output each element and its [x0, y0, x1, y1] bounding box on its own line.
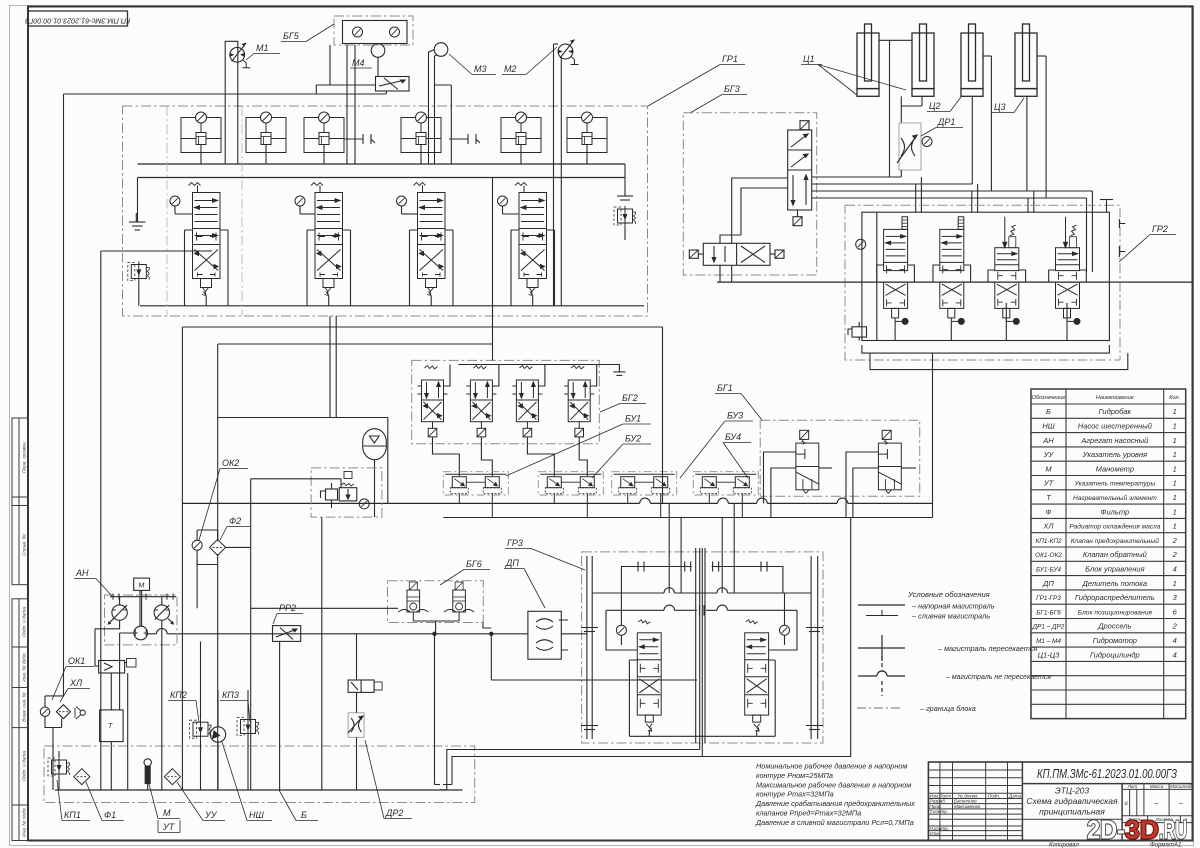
- check valve of GR1 section 2: [295, 196, 305, 206]
- svg-text:БУ1: БУ1: [625, 414, 641, 424]
- svg-text:1: 1: [1173, 422, 1177, 431]
- pump2 drop: [161, 620, 163, 790]
- check valve in BG5 left: [353, 27, 363, 37]
- svg-text:1: 1: [1173, 407, 1177, 416]
- svg-text:Кол.: Кол.: [1169, 395, 1180, 401]
- accumulator box: [218, 344, 388, 541]
- svg-text:Радиатор охлаждения масла: Радиатор охлаждения масла: [1069, 523, 1161, 531]
- svg-text:Ц3: Ц3: [994, 102, 1006, 112]
- BG1 wires: [764, 452, 917, 518]
- svg-text:М: М: [139, 583, 145, 590]
- wire H12: [251, 607, 398, 609]
- GR2 section 2: [940, 217, 965, 325]
- relief in box: [321, 483, 338, 508]
- svg-text:БУ1-БУ4: БУ1-БУ4: [1036, 567, 1061, 574]
- GR3 housing verticals: [587, 556, 818, 739]
- wire return loop x100: [101, 251, 212, 790]
- svg-text:КП3: КП3: [222, 690, 239, 700]
- GR2 section 4: [1056, 217, 1081, 325]
- svg-text:Гидроцилиндр: Гидроцилиндр: [1090, 650, 1140, 659]
- svg-text:Блок управления: Блок управления: [1085, 565, 1145, 574]
- pressure control box: [311, 468, 382, 517]
- svg-text:ГР2: ГР2: [1152, 224, 1168, 234]
- GR3 check right: [780, 625, 790, 635]
- svg-text:КП.ПМ.ЗМс-61.2023.01.00.00ГЗ: КП.ПМ.ЗМс-61.2023.01.00.00ГЗ: [1037, 766, 1177, 781]
- svg-text:Фильтр: Фильтр: [1101, 507, 1130, 516]
- left stamp column boxes: [12, 418, 28, 841]
- check valve of GR1 section 3: [397, 196, 407, 206]
- cylinder C2 pipes: [972, 56, 991, 191]
- BG2 top bus: [444, 365, 626, 387]
- control block BU1: [443, 472, 508, 518]
- svg-text:2: 2: [1172, 536, 1178, 545]
- legend (условные обозначения): [907, 590, 1051, 713]
- svg-text:Т.контр.: Т.контр.: [930, 809, 949, 814]
- GR3 check left: [616, 625, 626, 635]
- cylinder C1 link wires: [879, 40, 922, 177]
- svg-text:Насос шестеренный: Насос шестеренный: [1078, 422, 1153, 431]
- GR1 valve section 4: [515, 183, 547, 296]
- throttle DR2: [348, 713, 364, 738]
- svg-text:Басенчико: Басенчико: [954, 799, 977, 804]
- AN shaft: [110, 590, 176, 626]
- svg-text:ДР1: ДР1: [937, 117, 955, 127]
- check in box: [359, 499, 369, 509]
- GR2 section 3: [995, 217, 1020, 325]
- block BG1 border: [760, 420, 920, 496]
- parts list table: [1031, 389, 1186, 719]
- block GR1 border: [123, 106, 648, 316]
- BG1 valve A: [796, 430, 819, 493]
- svg-text:М: М: [163, 808, 171, 818]
- flow regulator RR1: [376, 77, 410, 92]
- svg-text:Указатель уровня: Указатель уровня: [1082, 450, 1147, 459]
- block GR2 border: [845, 205, 1120, 360]
- title block: [928, 762, 1192, 841]
- svg-text:ДП: ДП: [1042, 579, 1054, 588]
- svg-text:1: 1: [1173, 464, 1177, 473]
- XL loop box: [40, 696, 63, 790]
- svg-text:Изм.Лист: Изм.Лист: [930, 793, 952, 798]
- technical notes: [755, 762, 915, 827]
- block GR3 border: [582, 552, 823, 743]
- GR1 section 2 wires: [307, 230, 351, 306]
- svg-text:БГ1-БГ6: БГ1-БГ6: [1036, 609, 1061, 616]
- svg-text:Инв. № дубл.: Инв. № дубл.: [22, 652, 28, 682]
- svg-text:М3: М3: [474, 64, 487, 74]
- svg-text:ДР1 – ДР2: ДР1 – ДР2: [1032, 624, 1065, 631]
- thermometer M/UT: [144, 759, 151, 790]
- svg-text:Номинальное рабочее давление в: Номинальное рабочее давление в напорном: [756, 762, 907, 771]
- BG6 valve 2: [444, 582, 474, 618]
- flow regulator RR2: [273, 626, 301, 642]
- check valve OK2: [192, 540, 202, 550]
- tank collector: [55, 789, 463, 791]
- collector line H9: [443, 517, 932, 519]
- svg-text:Нагревательный элемент: Нагревательный элемент: [1073, 494, 1157, 502]
- svg-text:КП.ПМ.ЗМс-61.2023.01.00.00ГЗ: КП.ПМ.ЗМс-61.2023.01.00.00ГЗ: [25, 17, 131, 26]
- hydrocylinder body 4: [1015, 24, 1037, 96]
- feed pair from GR1: [330, 316, 336, 418]
- svg-text:Разраб.: Разраб.: [930, 799, 947, 804]
- svg-text:Копировал: Копировал: [1049, 842, 1079, 848]
- BG3 solenoid left: [689, 250, 703, 258]
- hydromotor M2: [558, 40, 578, 65]
- svg-text:Ф2: Ф2: [229, 516, 241, 526]
- svg-text:4: 4: [1173, 650, 1177, 659]
- GR1 section 1 wires: [185, 230, 229, 306]
- svg-text:контуре Рном=25МПа: контуре Рном=25МПа: [756, 771, 833, 780]
- svg-text:Давление в сливной магистрали: Давление в сливной магистрали Рсл=0,7МПа: [755, 818, 914, 827]
- svg-text:Делитель потока: Делитель потока: [1082, 579, 1147, 588]
- GR2 check valve left: [856, 239, 866, 249]
- valve above DR2: [348, 680, 382, 692]
- GR1 supply rails: [138, 163, 626, 165]
- GR1 section 3 wires: [410, 230, 454, 306]
- svg-text:Ф: Ф: [1046, 507, 1052, 516]
- svg-text:1: 1: [1173, 479, 1177, 488]
- OK1 check valve: [99, 659, 136, 674]
- GR3 valve left: [637, 620, 661, 732]
- svg-text:2: 2: [1172, 550, 1178, 559]
- svg-text:–: –: [1154, 800, 1159, 807]
- watermark 2D-3D.RU: [1087, 815, 1187, 845]
- svg-text:Подп.: Подп.: [988, 793, 1000, 798]
- svg-text:клапанов Рпред=Рmax=32МПа: клапанов Рпред=Рmax=32МПа: [756, 809, 861, 818]
- svg-text:Дроссель: Дроссель: [1097, 622, 1131, 631]
- svg-text:4: 4: [1173, 565, 1177, 574]
- wire left trunk: [63, 94, 65, 696]
- KP2 valve: [190, 719, 212, 739]
- BG5 pipes down: [316, 45, 386, 164]
- block BG6 border: [388, 581, 484, 623]
- tank port symbol left: [130, 178, 146, 231]
- wire H5: [218, 178, 493, 361]
- svg-text:Максимальное рабочее давление: Максимальное рабочее давление в напорном: [756, 780, 911, 789]
- svg-text:1: 1: [1173, 579, 1177, 588]
- svg-text:УУ: УУ: [204, 810, 218, 820]
- KP1: [48, 757, 70, 777]
- GR2 return drop: [702, 353, 932, 756]
- hydromotor M1: [230, 43, 250, 68]
- svg-text:1: 1: [1173, 507, 1177, 516]
- svg-text:Дата: Дата: [1008, 793, 1022, 798]
- level gauge UU: [164, 769, 180, 785]
- radiator XL: [56, 705, 85, 719]
- GR1 top section 4: [401, 112, 441, 153]
- collector line H8: [182, 498, 932, 503]
- BU drop joins: [662, 327, 664, 503]
- hydromotor M3: [434, 43, 448, 57]
- BG6 valve 1: [398, 582, 428, 618]
- hydrocylinder body 1: [857, 24, 879, 96]
- svg-text:АН: АН: [75, 568, 89, 578]
- svg-text:.RU: .RU: [1159, 815, 1187, 845]
- GR1 section 4 wires: [511, 230, 555, 306]
- svg-text:Наименование: Наименование: [1096, 395, 1134, 401]
- svg-text:БУ3: БУ3: [727, 411, 743, 421]
- svg-text:Б: Б: [301, 810, 307, 820]
- throttle DR1: [899, 123, 921, 170]
- wire H4: [182, 327, 662, 790]
- BG3 internal wires: [720, 178, 788, 282]
- control block BU2: [538, 472, 603, 518]
- GR3 valve loops: [606, 593, 797, 736]
- svg-text:Т: Т: [108, 723, 113, 730]
- svg-text:Утв.: Утв.: [930, 831, 940, 836]
- svg-text:ГР3: ГР3: [507, 538, 523, 548]
- svg-text:4: 4: [1173, 636, 1177, 645]
- svg-text:контуре Рmax=32МПа: контуре Рmax=32МПа: [756, 790, 834, 799]
- wire H top-left: [64, 93, 387, 95]
- GR3 center verticals: [696, 548, 705, 757]
- svg-text:Лит.: Лит.: [1127, 784, 1139, 789]
- check valve in BG5 right: [390, 27, 400, 37]
- svg-text:Подп. и дата: Подп. и дата: [22, 751, 28, 781]
- pipe bundle: [812, 177, 1093, 272]
- junction mark 2: [449, 134, 480, 144]
- block BG3 border: [683, 113, 816, 275]
- svg-text:– граница блока: – граница блока: [919, 704, 976, 713]
- KP3 valve: [237, 717, 259, 737]
- right relief valve of GR1: [617, 164, 633, 200]
- BG3 vertical valve: [788, 130, 812, 210]
- svg-text:УТ: УТ: [1043, 479, 1055, 488]
- BG2 drops to BU: [433, 437, 588, 476]
- svg-text:Ц1-Ц3: Ц1-Ц3: [1038, 650, 1061, 659]
- svg-text:Гидрораспределитель: Гидрораспределитель: [1075, 593, 1155, 602]
- check valve of GR1 section 1: [170, 196, 180, 206]
- GR1 top section 1: [181, 112, 221, 153]
- svg-text:№ докум.: № докум.: [958, 793, 978, 798]
- GR1 inner bottom line: [140, 305, 644, 307]
- svg-text:Взам. инв. №: Взам. инв. №: [22, 692, 28, 722]
- motor M box: [134, 578, 150, 590]
- svg-text:Пров.: Пров.: [930, 804, 942, 809]
- fan motor: [134, 626, 148, 640]
- DP/RR2 drains: [435, 634, 441, 785]
- wire H7: [251, 479, 341, 488]
- wire tank drop: [129, 213, 144, 230]
- GR2 right port marks: [1100, 200, 1125, 258]
- svg-text:2: 2: [1172, 622, 1178, 631]
- svg-text:Масса: Масса: [1150, 784, 1164, 789]
- svg-text:Максименко: Максименко: [954, 804, 981, 809]
- GR2 bottom-left relief: [848, 322, 867, 341]
- svg-text:КП1-КП2: КП1-КП2: [1035, 538, 1061, 545]
- svg-text:Условные обозначения: Условные обозначения: [907, 590, 990, 599]
- GR3 drains to tank: [440, 750, 702, 790]
- svg-text:БГ3: БГ3: [724, 84, 740, 94]
- BG3 solenoid right: [770, 250, 784, 258]
- svg-text:Манометр: Манометр: [1096, 464, 1134, 473]
- svg-text:1: 1: [1173, 450, 1177, 459]
- svg-text:Инв. № подл.: Инв. № подл.: [22, 807, 28, 837]
- GR2 section 1: [884, 217, 909, 325]
- block AN border: [105, 595, 178, 645]
- tank boundary: [44, 746, 475, 803]
- check valve of GR1 section 4: [498, 196, 508, 206]
- svg-text:– магистраль не пересекается: – магистраль не пересекается: [945, 674, 1051, 681]
- svg-text:УУ: УУ: [1043, 450, 1055, 459]
- GR1 top section 6: [567, 112, 607, 153]
- svg-text:ДП: ДП: [505, 558, 519, 568]
- svg-text:ЭТЦ-203: ЭТЦ-203: [1055, 786, 1090, 796]
- svg-text:ХЛ: ХЛ: [1042, 522, 1054, 531]
- svg-text:РР2: РР2: [279, 603, 296, 613]
- OK2/F2 wires: [197, 530, 251, 790]
- svg-text:Указатель температуры: Указатель температуры: [1073, 481, 1155, 488]
- svg-text:Подп. и дата: Подп. и дата: [22, 607, 28, 637]
- wire OK2 drop: [250, 479, 252, 790]
- GR1 valve section 3: [414, 183, 446, 296]
- GR3 valve right: [745, 620, 769, 732]
- DP output drain: [491, 620, 697, 680]
- svg-text:–: –: [1178, 800, 1183, 807]
- top-left corner stamp (rotated doc number): [28, 11, 128, 26]
- svg-text:БГ1: БГ1: [717, 383, 733, 393]
- svg-text:Ц2: Ц2: [929, 101, 941, 111]
- svg-text:Клапан обратный: Клапан обратный: [1083, 550, 1148, 559]
- block BG5: [334, 16, 413, 45]
- check valve at DR1: [922, 137, 932, 147]
- control block BU3: [612, 472, 677, 518]
- BG3 solenoid top: [800, 121, 809, 130]
- block BG2 border: [412, 360, 600, 443]
- svg-text:КП1: КП1: [64, 810, 81, 820]
- BG1 valve B: [878, 430, 901, 493]
- BG2 valve 4: [564, 366, 594, 437]
- svg-text:Ц1: Ц1: [803, 54, 815, 64]
- svg-text:Клапан предохранительный: Клапан предохранительный: [1071, 537, 1160, 545]
- GR3 top feeds: [669, 503, 734, 593]
- svg-text:1: 1: [1173, 522, 1177, 531]
- svg-text:Масштаб: Масштаб: [1170, 784, 1192, 789]
- heater T: [100, 710, 124, 742]
- svg-text:М: М: [1045, 464, 1052, 473]
- gear pump NSh: [210, 690, 226, 790]
- svg-text:ОК2: ОК2: [222, 458, 239, 468]
- svg-text:Гидромотор: Гидромотор: [1093, 636, 1137, 645]
- svg-text:АН: АН: [1042, 436, 1054, 445]
- svg-text:Ф1: Ф1: [104, 810, 116, 820]
- svg-text:УТ: УТ: [162, 822, 176, 832]
- svg-text:М2: М2: [504, 64, 517, 74]
- svg-text:ОК1: ОК1: [68, 656, 85, 666]
- svg-text:2D-: 2D-: [1087, 815, 1125, 845]
- svg-text:БУ4: БУ4: [725, 432, 741, 442]
- hydrocylinder body 2: [912, 24, 934, 96]
- svg-text:Перв. примен.: Перв. примен.: [22, 441, 28, 473]
- svg-text:М4: М4: [352, 58, 365, 68]
- filter F1: [74, 769, 90, 785]
- BG6 bottom joins: [413, 618, 491, 634]
- svg-text:БГ5: БГ5: [283, 31, 300, 41]
- BG3 horizontal valve: [703, 243, 770, 265]
- hydrocylinder body 3: [961, 24, 983, 96]
- svg-text:М1: М1: [256, 43, 269, 53]
- svg-text:ОК1-ОК2: ОК1-ОК2: [1035, 552, 1062, 559]
- wire H13: [148, 633, 587, 635]
- svg-text:1: 1: [1173, 493, 1177, 502]
- GR3 top wire w junction marks: [621, 562, 783, 594]
- GR2 section side channels: [877, 265, 1087, 341]
- svg-text:– магистраль пересекается: – магистраль пересекается: [937, 644, 1037, 653]
- GR1 top section 5: [501, 112, 541, 153]
- svg-text:Справ. №: Справ. №: [22, 534, 28, 556]
- BG3 solenoid bottom: [793, 210, 802, 226]
- svg-text:ДР2: ДР2: [385, 808, 403, 818]
- svg-text:ГР1-ГР3: ГР1-ГР3: [1036, 595, 1061, 602]
- GR3 port marks: [581, 628, 823, 730]
- svg-text:Обозначение: Обозначение: [1032, 395, 1066, 401]
- svg-text:Гидробак: Гидробак: [1099, 407, 1132, 416]
- control block BU4: [693, 472, 758, 518]
- valve KP inside GR1: [128, 262, 150, 282]
- GR1 inner section dividers: [167, 106, 242, 316]
- svg-text:НШ: НШ: [1042, 422, 1054, 431]
- GR1 top section 2: [246, 112, 286, 153]
- BG2 valve 2: [466, 366, 496, 437]
- svg-text:– сливная магистраль: – сливная магистраль: [911, 612, 990, 621]
- accumulator: [363, 429, 387, 517]
- svg-text:ХЛ: ХЛ: [69, 678, 83, 688]
- pump 2: [154, 597, 174, 625]
- junction mark 1: [344, 134, 375, 144]
- svg-text:3D: 3D: [1125, 815, 1159, 845]
- svg-text:БГ6: БГ6: [466, 559, 482, 569]
- DP flow divider: [528, 611, 561, 659]
- svg-text:1: 1: [1173, 436, 1177, 445]
- pump 1: [108, 597, 128, 625]
- svg-text:БУ2: БУ2: [625, 434, 641, 444]
- svg-text:Б: Б: [1046, 407, 1051, 416]
- svg-text:ГР1: ГР1: [722, 54, 738, 64]
- BG2 valve 3: [512, 366, 542, 437]
- GR2 housing: [862, 212, 1128, 369]
- GR1 top section 3: [304, 112, 344, 153]
- svg-text:– напорная магистраль: – напорная магистраль: [911, 602, 995, 611]
- hydromotor M4: [371, 44, 385, 58]
- BG2 valve 1: [418, 366, 448, 437]
- GR2 main rail: [717, 281, 1193, 283]
- cylinder C3 pipes: [1027, 56, 1046, 198]
- svg-text:Давление срабатывания предохра: Давление срабатывания предохранительных: [755, 799, 915, 808]
- svg-text:М1 – М4: М1 – М4: [1036, 638, 1061, 645]
- GR3 bus lines: [592, 588, 811, 616]
- svg-text:КП2: КП2: [170, 690, 187, 700]
- svg-text:БГ2: БГ2: [622, 393, 638, 403]
- filter F2: [210, 539, 226, 555]
- GR1 valve section 2: [311, 183, 343, 296]
- svg-text:Агрегат насосный: Агрегат насосный: [1080, 436, 1149, 445]
- svg-text:НШ: НШ: [249, 810, 264, 820]
- svg-text:Блок позиционирования: Блок позиционирования: [1078, 609, 1153, 616]
- svg-text:Схема гидравлическая: Схема гидравлическая: [1026, 796, 1118, 806]
- GR1 valve section 1: [189, 183, 221, 296]
- misc verticals to tank: [197, 517, 322, 790]
- pilot valve in box: [339, 472, 357, 501]
